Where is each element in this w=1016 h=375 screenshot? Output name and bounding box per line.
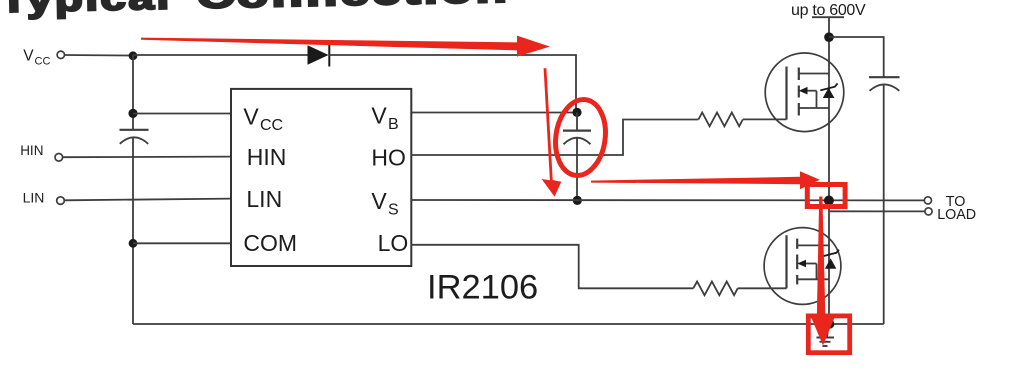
transistor Q2 low-side MOSFET: [764, 228, 841, 305]
svg-text:HO: HO: [371, 145, 406, 171]
junction VCC pin branch: [128, 109, 137, 118]
svg-text:IR2106: IR2106: [427, 269, 538, 307]
junction HV top: [824, 32, 834, 42]
wire bottom ground rail: [133, 323, 884, 325]
wire HIN: [63, 156, 231, 159]
title "Typical Connection" (cropped at top): [0, 0, 510, 20]
wire 600V stub: [812, 16, 844, 18]
svg-text:S: S: [388, 202, 399, 219]
wire load return: [830, 210, 925, 212]
wire bootstrap cap top: [576, 113, 578, 131]
annotation red ellipse (bootstrap capacitor): [551, 96, 610, 179]
svg-text:V: V: [371, 103, 387, 129]
annotation red arrow 1 (VCC to VB path): [141, 36, 550, 57]
capacitor C3 bus: [869, 77, 900, 91]
svg-text:CC: CC: [260, 117, 283, 134]
body diode Q2: [822, 250, 839, 269]
annotation red arrow 4 (switch node to ground): [812, 197, 835, 346]
wire diode cathode to VB corner: [329, 55, 576, 113]
svg-text:HIN: HIN: [247, 144, 287, 170]
wire top rail to diode anode: [133, 54, 308, 56]
svg-text:B: B: [388, 116, 399, 133]
svg-text:LOAD: LOAD: [937, 207, 976, 223]
svg-text:CC: CC: [35, 56, 51, 68]
junction COM node: [129, 239, 138, 248]
capacitor C1 VCC bypass: [120, 130, 149, 144]
wire HV bus vertical: [828, 17, 830, 324]
wire COM pin: [133, 242, 231, 244]
label VCC (supply terminal): [23, 47, 50, 67]
wire VCC pin: [133, 113, 231, 115]
body diode Q1: [820, 83, 837, 98]
terminal load return: [925, 208, 932, 215]
svg-text:HIN: HIN: [20, 143, 43, 158]
wire VB pin: [411, 112, 577, 114]
terminal load positive: [924, 197, 931, 204]
svg-text:V: V: [23, 47, 34, 64]
wire VS pin to load: [411, 199, 924, 201]
transistor Q1 high-side MOSFET: [765, 53, 844, 132]
label TO LOAD: [937, 194, 976, 223]
wire C3 bottom to ground rail: [883, 84, 885, 324]
wire VCC terminal to rail: [65, 54, 133, 57]
svg-text:LO: LO: [378, 230, 409, 256]
svg-text:LIN: LIN: [23, 189, 45, 205]
wire R2 to Q2 gate: [738, 287, 787, 289]
svg-text:COM: COM: [243, 230, 297, 256]
junction VS bootstrap: [573, 196, 582, 205]
pin label VCC: [243, 104, 283, 134]
wire HO pin to gate resistor: [411, 120, 698, 156]
terminal VCC: [57, 51, 64, 58]
wire LIN: [65, 199, 231, 201]
wire left rail lower: [132, 137, 134, 324]
svg-text:up to 600V: up to 600V: [791, 2, 866, 19]
junction switch node: [824, 196, 834, 206]
junction VCC top: [129, 51, 138, 60]
pin label VB: [371, 103, 398, 133]
junction ground node: [825, 319, 834, 328]
resistor R1 high-side gate: [698, 113, 742, 127]
annotation red box (ground): [808, 316, 849, 353]
ground symbol: [817, 324, 835, 346]
annotation red box (switch node): [807, 185, 845, 207]
svg-text:V: V: [243, 104, 259, 130]
IC U1 IR2106 box: [231, 89, 411, 266]
annotation red arrow 3 (VS to switch node): [591, 171, 820, 189]
annotation red arrow 2 (down to bootstrap cap): [542, 68, 562, 197]
wire left rail upper: [132, 55, 134, 129]
terminal LIN: [57, 197, 65, 205]
wire HV to C3 branch: [829, 37, 884, 77]
resistor R2 low-side gate: [693, 282, 737, 296]
wire R1 to Q1 gate: [743, 118, 787, 120]
pin label VS: [371, 188, 398, 218]
diode D1 bootstrap: [308, 45, 330, 67]
capacitor C2 bootstrap: [563, 131, 591, 145]
junction VB node: [572, 108, 581, 117]
svg-text:LIN: LIN: [246, 186, 282, 212]
svg-text:V: V: [371, 188, 387, 214]
wire bootstrap cap bottom to VS: [576, 137, 578, 201]
svg-text:Connection: Connection: [196, 0, 510, 16]
svg-text:Typical: Typical: [0, 0, 172, 20]
wire LO pin to gate resistor: [411, 245, 693, 288]
terminal HIN: [55, 154, 63, 162]
